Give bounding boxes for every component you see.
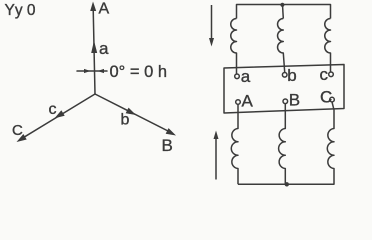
svg-text:A: A: [242, 92, 254, 111]
svg-text:C: C: [320, 88, 332, 107]
svg-text:Yy 0: Yy 0: [5, 2, 36, 19]
svg-text:c: c: [320, 65, 329, 84]
svg-text:A: A: [99, 0, 110, 17]
svg-text:b: b: [121, 112, 130, 129]
svg-text:a: a: [241, 67, 251, 86]
svg-text:0° = 0 h: 0° = 0 h: [110, 63, 168, 81]
svg-text:B: B: [289, 91, 300, 110]
svg-text:b: b: [287, 66, 296, 85]
svg-text:a: a: [99, 39, 109, 58]
svg-text:c: c: [49, 101, 57, 118]
svg-text:C: C: [12, 122, 23, 139]
svg-text:B: B: [162, 136, 173, 155]
